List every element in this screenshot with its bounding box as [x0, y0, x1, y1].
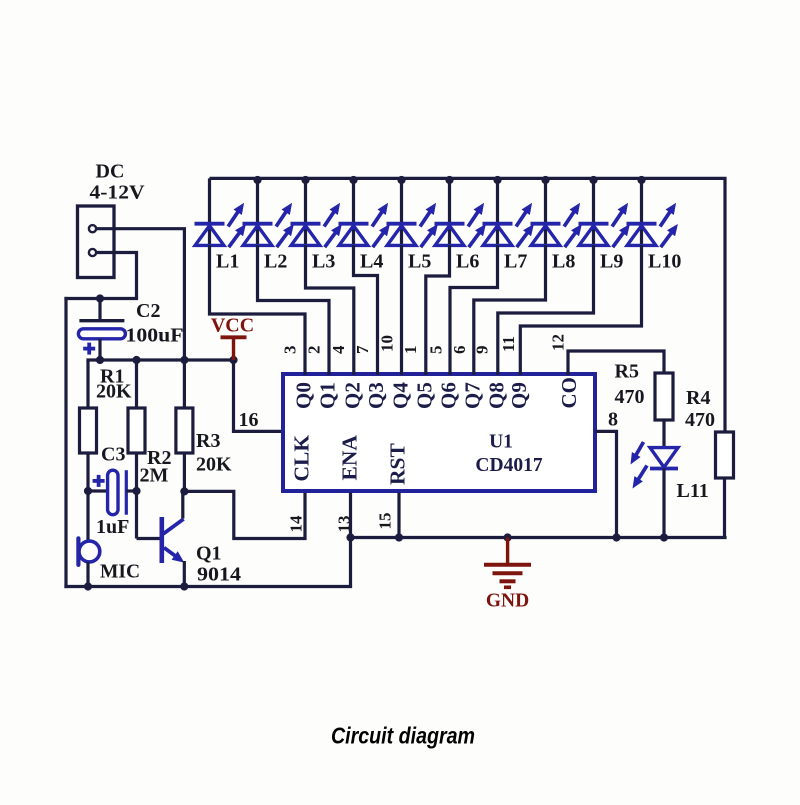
caption Circuit diagram [331, 723, 475, 749]
label pin 8 [608, 409, 618, 431]
IC label Q6 [437, 382, 461, 409]
svg-text:Q7: Q7 [460, 382, 484, 409]
wire DC- from jack down to ground branch [96, 253, 136, 299]
resistor R2 2M [128, 360, 145, 539]
label U1 [489, 432, 513, 453]
IC label Q2 [340, 382, 364, 409]
resistor R5 470 [655, 373, 673, 448]
microphone MIC [78, 538, 99, 588]
node rail L7 [493, 176, 501, 184]
label C3 1uF [96, 444, 129, 539]
svg-text:470: 470 [685, 409, 715, 431]
svg-text:L10: L10 [648, 250, 681, 272]
resistor R1 20K [80, 360, 97, 542]
label MIC [100, 562, 140, 583]
svg-text:9: 9 [473, 346, 492, 355]
IC label RST [386, 443, 410, 485]
svg-text:11: 11 [499, 336, 518, 352]
svg-text:L4: L4 [360, 250, 383, 272]
node C3 right junction [132, 487, 140, 495]
svg-text:Q0: Q0 [292, 382, 316, 409]
svg-text:Q5: Q5 [412, 382, 436, 409]
IC label Q7 [460, 382, 484, 409]
label pin 12 [549, 334, 568, 351]
wire L6 cathode to IC [426, 245, 450, 375]
wire L1 cathode to IC [210, 245, 306, 375]
IC label Q3 [364, 382, 388, 409]
label DC 4-12V [90, 161, 146, 204]
LED L11 [631, 442, 679, 539]
svg-text:2: 2 [304, 346, 323, 355]
label L5 [408, 250, 431, 272]
svg-text:2M: 2M [140, 465, 169, 487]
node L11 ground [660, 533, 668, 541]
wire IC pin 15 to ground [397, 493, 400, 540]
node VCC tap [229, 356, 237, 364]
wire L4 cathode to IC [354, 245, 378, 375]
resistor R3 20K [176, 360, 193, 493]
label L2 [264, 250, 287, 272]
IC label CO [557, 377, 581, 409]
wire right rail [723, 180, 726, 432]
svg-text:C2: C2 [136, 300, 160, 322]
svg-text:14: 14 [287, 515, 306, 533]
wire ground rail bottom [351, 536, 727, 539]
label L8 [552, 250, 575, 272]
svg-text:9014: 9014 [197, 564, 241, 586]
node pin13 ground [346, 533, 354, 541]
IC label CLK [290, 435, 314, 482]
node C3 left junction [84, 487, 92, 495]
svg-text:CLK: CLK [290, 435, 314, 482]
label pin 11 [499, 336, 518, 352]
node emitter ground [180, 582, 188, 590]
IC label Q4 [388, 382, 412, 409]
IC U1 CD4017 [283, 374, 595, 491]
IC label Q5 [412, 382, 436, 409]
wire collector to IC pin 14 [186, 491, 305, 538]
label R4 470 [685, 387, 715, 431]
wire IC pin 12 to R5 [568, 351, 664, 375]
svg-text:L5: L5 [408, 250, 431, 272]
label pin 6 [450, 346, 469, 355]
power VCC [211, 315, 254, 361]
node C2 top junction [96, 294, 104, 302]
wire ground branch horizontal [64, 297, 138, 300]
svg-text:Q2: Q2 [340, 382, 364, 409]
node ground tap [504, 533, 512, 541]
node R1 top [96, 356, 104, 364]
LED L8 [531, 178, 582, 247]
label pin 9 [473, 346, 492, 355]
label C2 100uF [126, 300, 184, 347]
svg-text:L7: L7 [504, 250, 527, 272]
label Q1 9014 [196, 543, 241, 586]
node rail L9 [589, 176, 597, 184]
svg-text:RST: RST [386, 443, 410, 485]
label L11 [677, 480, 709, 502]
wire L7 cathode to IC [450, 245, 498, 375]
wire IC pin 13 to ground [349, 493, 352, 587]
svg-text:Q8: Q8 [484, 382, 508, 409]
label L1 [216, 250, 239, 272]
wire IC pin 8 to ground rail [595, 431, 617, 539]
wire DC+ from jack to VCC rail [96, 229, 184, 360]
label pin 15 [376, 513, 395, 530]
label pin 13 [335, 516, 354, 533]
node rail L8 [541, 176, 549, 184]
label L6 [456, 250, 479, 272]
svg-text:R5: R5 [615, 361, 639, 383]
svg-text:8: 8 [608, 409, 618, 431]
svg-text:GND: GND [486, 591, 529, 612]
node rail L2 [253, 176, 261, 184]
svg-text:Circuit diagram: Circuit diagram [331, 723, 475, 749]
ground GND [484, 538, 531, 612]
svg-text:12: 12 [549, 334, 568, 351]
label pin 2 [304, 346, 323, 355]
label pin 14 [287, 515, 306, 533]
label L9 [600, 250, 623, 272]
wire L3 cathode to IC [306, 245, 354, 375]
wire L9 cathode to IC [498, 245, 594, 375]
label L7 [504, 250, 527, 272]
node MIC ground [84, 582, 92, 590]
svg-text:R3: R3 [196, 430, 220, 452]
LED L4 [339, 178, 390, 247]
label CD4017 [475, 455, 542, 476]
LED L9 [579, 178, 630, 247]
svg-text:L8: L8 [552, 250, 575, 272]
wire LED anode rail [210, 178, 726, 180]
svg-text:Q4: Q4 [388, 382, 412, 409]
svg-text:DC: DC [96, 161, 125, 183]
transistor Q1 9014 (NPN) [137, 491, 185, 588]
svg-text:1uF: 1uF [96, 516, 129, 538]
capacitor C2 (100uF) with + mark [78, 299, 125, 361]
svg-text:100uF: 100uF [126, 325, 184, 347]
svg-text:R4: R4 [686, 387, 710, 409]
svg-text:Q1: Q1 [196, 543, 222, 565]
svg-text:470: 470 [615, 386, 645, 408]
node rail L3 [301, 176, 309, 184]
node pin8 ground [612, 533, 620, 541]
LED L10 [627, 178, 678, 247]
svg-text:6: 6 [450, 346, 469, 355]
svg-text:20K: 20K [196, 454, 232, 476]
IC label Q8 [484, 382, 508, 409]
LED L3 [291, 178, 342, 247]
wire L5 cathode to IC [400, 245, 403, 375]
node rail L4 [349, 176, 357, 184]
svg-text:L2: L2 [264, 250, 287, 272]
IC label Q1 [316, 382, 340, 409]
wire L2 cathode to IC [258, 245, 330, 375]
wire L10 cathode to IC [520, 245, 641, 375]
label L4 [360, 250, 383, 272]
node rail L10 [637, 176, 645, 184]
svg-text:L3: L3 [312, 250, 335, 272]
LED L1 [195, 178, 246, 247]
svg-text:L11: L11 [677, 480, 709, 502]
svg-text:1: 1 [401, 346, 420, 355]
label L3 [312, 250, 335, 272]
svg-text:7: 7 [353, 345, 372, 354]
svg-text:U1: U1 [489, 432, 513, 453]
svg-text:3: 3 [280, 346, 299, 355]
label pin 1 [401, 346, 420, 355]
label R5 470 [615, 361, 645, 409]
label pin 7 [353, 345, 372, 354]
svg-text:20K: 20K [96, 381, 132, 403]
svg-text:L6: L6 [456, 250, 479, 272]
IC label Q9 [507, 382, 531, 409]
svg-text:MIC: MIC [100, 562, 140, 583]
node collector junction [180, 487, 188, 495]
label R1 20K [96, 366, 132, 403]
wire L8 cathode to IC [474, 245, 546, 375]
svg-text:CO: CO [557, 377, 581, 409]
label L10 [648, 250, 681, 272]
label pin 4 [329, 345, 348, 354]
svg-text:C3: C3 [101, 444, 125, 466]
resistor R4 470 [716, 432, 734, 539]
svg-text:15: 15 [376, 513, 395, 530]
svg-text:13: 13 [335, 516, 354, 533]
LED L6 [435, 178, 486, 247]
LED L7 [483, 178, 534, 247]
svg-text:Q9: Q9 [507, 382, 531, 409]
connector J1 (DC input jack) [78, 206, 115, 278]
wire VCC rail [86, 358, 235, 361]
wire left ground rail [64, 297, 67, 588]
svg-text:5: 5 [426, 346, 445, 355]
svg-text:ENA: ENA [338, 435, 362, 481]
svg-text:CD4017: CD4017 [475, 455, 542, 476]
node R2 top [132, 356, 140, 364]
label pin 3 [280, 346, 299, 355]
LED L2 [243, 178, 294, 247]
label pin 10 [378, 335, 397, 352]
label pin 5 [426, 346, 445, 355]
svg-text:Q1: Q1 [316, 382, 340, 409]
wire emitter ground rail [64, 585, 352, 588]
svg-text:16: 16 [239, 409, 259, 431]
svg-text:VCC: VCC [211, 315, 254, 337]
svg-text:Q6: Q6 [437, 382, 461, 409]
capacitor C3 (1uF) with + mark [86, 470, 138, 515]
IC label Q0 [292, 382, 316, 409]
svg-text:L1: L1 [216, 250, 239, 272]
wire VCC to IC pin 16 [234, 360, 284, 431]
svg-text:Q3: Q3 [364, 382, 388, 409]
node rail L5 [397, 176, 405, 184]
svg-text:4-12V: 4-12V [90, 182, 146, 204]
svg-text:L9: L9 [600, 250, 623, 272]
svg-text:10: 10 [378, 335, 397, 352]
node pin15 ground [395, 533, 403, 541]
IC label ENA [338, 435, 362, 481]
node R3 top [180, 356, 188, 364]
LED L5 [387, 178, 438, 247]
node rail L6 [445, 176, 453, 184]
label pin 16 [239, 409, 259, 431]
label R3 20K [196, 430, 232, 476]
label R2 2M [140, 447, 172, 487]
svg-text:4: 4 [329, 345, 348, 354]
